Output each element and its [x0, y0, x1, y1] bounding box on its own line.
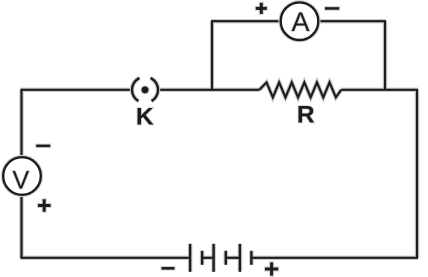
svg-text:V: V	[12, 167, 29, 195]
svg-text:A: A	[291, 7, 309, 37]
svg-text:K: K	[136, 104, 154, 131]
svg-text:R: R	[297, 102, 315, 129]
